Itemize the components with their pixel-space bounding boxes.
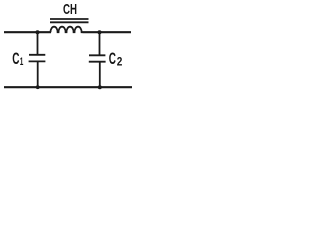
capacitor C1 top plate — [29, 54, 45, 56]
junction bottom-right node — [98, 85, 102, 89]
inductor CH core line upper — [50, 18, 89, 20]
junction top-left node — [36, 30, 40, 34]
capacitor C2 bottom lead — [99, 62, 101, 87]
svg-text:C: C — [12, 50, 19, 68]
wire: bottom rail — [4, 86, 132, 88]
capacitor C2 top plate — [89, 54, 105, 56]
svg-text:2: 2 — [117, 57, 123, 69]
svg-text:CH: CH — [63, 2, 77, 18]
svg-text:1: 1 — [20, 56, 24, 68]
wire: top rail right segment — [83, 31, 132, 33]
capacitor C1 top lead — [37, 32, 39, 55]
capacitor C1 bottom plate — [29, 60, 46, 62]
junction bottom-left node — [36, 85, 40, 89]
junction top-right node — [98, 30, 102, 34]
inductor CH coil — [51, 27, 83, 33]
wire: top rail left segment — [4, 31, 51, 33]
capacitor C1 bottom lead — [37, 62, 39, 88]
capacitor C2 top lead — [99, 32, 101, 56]
svg-text:C: C — [109, 50, 116, 68]
capacitor C2 bottom plate — [89, 61, 106, 63]
inductor CH core line lower — [50, 21, 89, 23]
